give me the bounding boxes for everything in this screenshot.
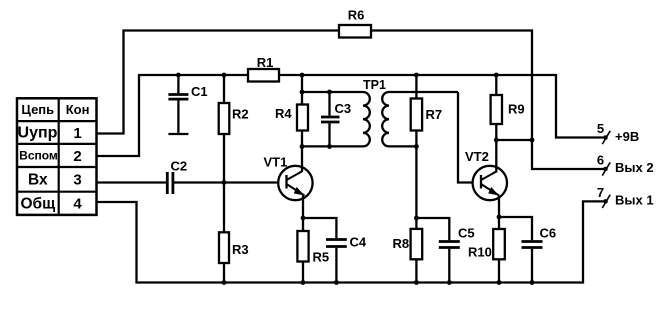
- svg-text:Uупр: Uупр: [18, 125, 58, 142]
- svg-text:C6: C6: [540, 226, 557, 241]
- svg-text:6: 6: [597, 153, 604, 168]
- svg-text:VT2: VT2: [465, 149, 489, 164]
- svg-text:R2: R2: [232, 107, 249, 122]
- svg-text:5: 5: [597, 121, 604, 136]
- svg-text:2: 2: [73, 148, 81, 165]
- svg-text:C2: C2: [171, 159, 188, 174]
- svg-text:3: 3: [73, 172, 81, 189]
- svg-text:R8: R8: [393, 236, 410, 251]
- svg-text:R7: R7: [426, 107, 443, 122]
- svg-text:Вх: Вх: [28, 172, 48, 189]
- svg-text:R5: R5: [313, 250, 330, 265]
- svg-text:C4: C4: [350, 235, 367, 250]
- svg-text:1: 1: [73, 125, 81, 142]
- svg-text:R1: R1: [257, 55, 274, 70]
- svg-text:Вых 2: Вых 2: [615, 160, 654, 175]
- svg-text:Общ: Общ: [20, 196, 55, 213]
- svg-text:4: 4: [73, 196, 82, 213]
- svg-text:Вых 1: Вых 1: [615, 193, 654, 208]
- svg-text:+9В: +9В: [615, 129, 639, 144]
- svg-text:7: 7: [597, 185, 604, 200]
- svg-text:R9: R9: [508, 102, 525, 117]
- svg-text:Цепь: Цепь: [21, 102, 54, 117]
- svg-text:C5: C5: [458, 226, 475, 241]
- svg-text:VT1: VT1: [264, 155, 288, 170]
- svg-text:C1: C1: [191, 84, 208, 99]
- svg-text:R4: R4: [275, 106, 292, 121]
- svg-text:ТР1: ТР1: [363, 78, 386, 92]
- svg-text:R6: R6: [348, 8, 365, 23]
- svg-text:R10: R10: [468, 245, 492, 260]
- svg-text:C3: C3: [335, 101, 352, 116]
- svg-text:R3: R3: [232, 242, 249, 257]
- svg-text:Кон: Кон: [66, 102, 90, 117]
- svg-text:Вспом: Вспом: [19, 149, 58, 163]
